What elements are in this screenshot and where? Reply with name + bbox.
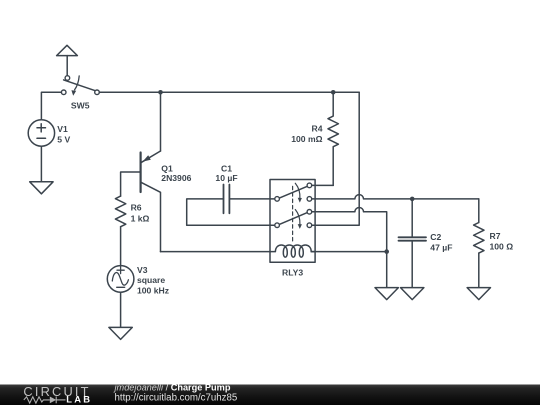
capacitor C2: [399, 237, 427, 240]
label V3 square 100kHz: [137, 265, 169, 296]
wire R7 to ground: [478, 253, 480, 288]
ground below C2: [401, 288, 424, 300]
relay pole2 common terminal: [275, 223, 280, 228]
svg-text:47 µF: 47 µF: [430, 242, 452, 252]
label R4 100mohm: [291, 124, 322, 144]
wire V1 to ground: [40, 146, 42, 182]
relay RLY3 body: [270, 180, 315, 263]
ground below V1: [30, 182, 53, 194]
svg-text:R7: R7: [490, 231, 501, 241]
relay pole2 NC terminal: [307, 223, 312, 228]
svg-text:1 kΩ: 1 kΩ: [131, 213, 150, 223]
relay pole1 NO terminal: [307, 183, 312, 188]
svg-text:C1: C1: [221, 163, 232, 173]
resistor R6: [115, 196, 125, 227]
relay pole1 blade: [279, 186, 307, 198]
resistor R4: [328, 92, 338, 185]
relay pole2 NO terminal: [307, 210, 312, 215]
svg-text:100 Ω: 100 Ω: [490, 242, 514, 252]
relay pole1 NC terminal: [307, 197, 312, 202]
svg-text:SW5: SW5: [71, 100, 90, 110]
ground below V3: [109, 327, 132, 339]
relay armature dashed link: [292, 186, 294, 242]
switch SW5 actuation arrow: [71, 76, 79, 96]
wire relay SW1 common to C1: [229, 198, 274, 200]
wire R6 to V3: [120, 227, 122, 266]
svg-text:100 mΩ: 100 mΩ: [291, 134, 322, 144]
label SW5: [71, 100, 90, 110]
switch SW5 top terminal: [65, 76, 70, 81]
wire top rail: [99, 91, 359, 93]
label R7 100ohm: [490, 231, 514, 252]
svg-text:R6: R6: [131, 203, 142, 213]
relay pole1 common terminal: [275, 197, 280, 202]
wire collector to relay coil: [161, 251, 271, 253]
svg-text:http://circuitlab.com/c7uhz85: http://circuitlab.com/c7uhz85: [115, 392, 238, 403]
junction node rail-emitter: [158, 90, 163, 95]
switch SW5 left terminal: [61, 90, 66, 95]
wire rail to C2: [411, 199, 413, 237]
junction node rail-R4: [331, 90, 336, 95]
voltage source V1: [28, 120, 54, 146]
wire C2 to ground: [411, 241, 413, 288]
wire V3 to ground: [120, 292, 122, 327]
svg-text:RLY3: RLY3: [282, 268, 303, 278]
label RLY3: [282, 268, 303, 278]
wire rail to R7: [478, 199, 480, 223]
switch SW5 blade: [64, 80, 95, 91]
wire emitter: [160, 92, 162, 151]
relay coil: [270, 245, 315, 257]
svg-text:square: square: [137, 275, 165, 285]
ground below R7: [467, 288, 490, 300]
relay pole1 arrow: [295, 183, 302, 202]
svg-text:Q1: Q1: [161, 163, 173, 173]
svg-text:V1: V1: [57, 124, 68, 134]
capacitor C1: [224, 185, 230, 214]
junction node coil-ground: [384, 249, 389, 254]
label C1 10uF: [215, 163, 237, 183]
svg-text:5 V: 5 V: [57, 135, 70, 145]
label V1 5V: [57, 124, 70, 145]
label R6 1k: [131, 203, 150, 224]
power flag VCC triangle: [57, 45, 78, 55]
resistor R7: [474, 223, 484, 254]
switch SW5 right terminal: [95, 90, 100, 95]
wire switch to V1: [41, 92, 61, 120]
logo resistor zigzag and diode: [24, 397, 66, 404]
wire relay NO2 down with hop: [312, 207, 387, 251]
wire rail down to relay NC2: [312, 92, 360, 225]
svg-text:V3: V3: [137, 265, 148, 275]
footer bar: [0, 385, 540, 406]
wire relay NC1 to output rail with hop: [312, 195, 479, 199]
ground below coil: [375, 288, 398, 300]
relay pole2 blade: [279, 213, 307, 225]
wire flag to switch: [66, 56, 68, 76]
svg-text:2N3906: 2N3906: [161, 173, 191, 183]
voltage source V3 square: [107, 266, 134, 293]
svg-text:R4: R4: [312, 124, 323, 134]
wire coil to ground node: [311, 252, 387, 288]
wire relay NO1 to R4: [312, 184, 334, 186]
svg-text:LAB: LAB: [66, 393, 92, 404]
transistor Q1: [141, 151, 161, 252]
relay pole2 arrow: [295, 210, 302, 229]
wire C1 to relay SW2 common: [187, 199, 275, 225]
label Q1 2N3906: [161, 163, 191, 183]
svg-text:C2: C2: [430, 232, 441, 242]
svg-text:100 kHz: 100 kHz: [137, 286, 169, 296]
svg-text:jmdejoanelli / Charge Pump: jmdejoanelli / Charge Pump: [113, 383, 231, 393]
label C2 47uF: [430, 232, 452, 252]
junction node output C2: [410, 197, 415, 202]
wire base to R6: [121, 172, 141, 196]
svg-text:10 µF: 10 µF: [215, 173, 237, 183]
